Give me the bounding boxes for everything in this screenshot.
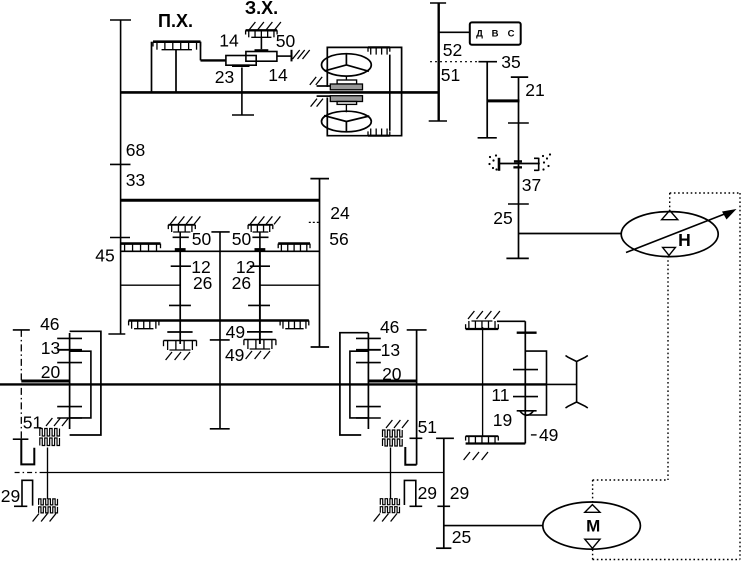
svg-text:25: 25 — [493, 208, 512, 228]
svg-text:49: 49 — [539, 425, 558, 445]
svg-text:46: 46 — [40, 314, 59, 334]
svg-text:50: 50 — [232, 229, 252, 249]
wire shaft to pump — [519, 233, 622, 235]
gear block 14 (sliding box B) — [246, 52, 277, 62]
wire step to sliding block — [200, 42, 202, 61]
gear 49 bottom (frame-fixed) — [466, 435, 499, 437]
svg-text:В: В — [492, 29, 499, 40]
motor port triangle top — [585, 505, 600, 513]
wire shaft to motor — [444, 525, 543, 527]
bearing support 37 — [499, 163, 540, 165]
svg-text:52: 52 — [443, 40, 462, 60]
clutch 51 tooth block middle — [386, 420, 392, 428]
gear 49 top (frame-fixed) — [468, 311, 474, 319]
wire 26 left link — [121, 284, 181, 286]
pump Н (variable displacement) — [621, 212, 718, 257]
housing gear rim bottom — [368, 135, 390, 137]
motor М — [543, 502, 641, 549]
svg-text:Д: Д — [476, 29, 483, 40]
svg-text:26: 26 — [232, 273, 251, 293]
svg-text:29: 29 — [418, 483, 437, 503]
yoke clutch1 — [21, 439, 34, 464]
planet shaft right (12/26) — [259, 251, 261, 344]
turbine hub — [345, 76, 347, 80]
svg-text:46: 46 — [380, 317, 399, 337]
gear mesh comb bottom-left — [129, 320, 159, 322]
planet brake right — [247, 331, 273, 333]
planet shaft left (12/26) — [179, 251, 181, 344]
gear 21 mesh bar — [487, 99, 519, 102]
wire main input shaft — [121, 91, 439, 94]
wire bottom main shaft — [0, 383, 547, 385]
svg-text:33: 33 — [126, 170, 145, 190]
turbine wheel (bottom ellipse) — [322, 111, 372, 132]
svg-text:20: 20 — [382, 364, 402, 384]
svg-text:23: 23 — [215, 67, 234, 87]
hydraulic line right edge down — [739, 193, 741, 560]
shaft V8 — [482, 327, 484, 437]
clutch 1 inner drum — [70, 351, 91, 418]
svg-text:29: 29 — [1, 486, 20, 506]
wire intermediate shaft 45 — [121, 250, 320, 252]
planet brake left — [167, 331, 192, 333]
shaft V9 — [524, 321, 526, 443]
hydraulic line pump top to right — [669, 193, 671, 210]
link pin clutch2 — [390, 448, 392, 499]
torque converter housing — [327, 47, 401, 135]
svg-text:Н: Н — [678, 230, 691, 250]
wire output link — [547, 383, 577, 385]
reactor hub — [330, 96, 362, 102]
wire ring gear bottom rail — [129, 319, 309, 321]
motor port triangle bottom — [585, 539, 600, 548]
svg-text:14: 14 — [219, 31, 239, 51]
svg-text:50: 50 — [192, 229, 212, 249]
svg-text:25: 25 — [452, 527, 471, 547]
gear 25 tick — [508, 203, 529, 205]
svg-text:П.Х.: П.Х. — [158, 11, 193, 31]
gear 45 mesh comb — [121, 242, 161, 245]
shaft V6 (24/56) — [319, 179, 321, 347]
gear 56 mesh comb — [278, 242, 310, 245]
svg-text:19: 19 — [493, 410, 512, 430]
svg-text:24: 24 — [330, 203, 350, 223]
pump port triangle top — [662, 210, 678, 219]
hydraulic line to motor top — [593, 479, 668, 481]
svg-text:35: 35 — [501, 52, 520, 72]
gear 20 bar clutch 1 — [21, 380, 69, 383]
support anchor of reverse idler — [277, 55, 291, 57]
stator support bottom — [317, 95, 331, 97]
svg-text:13: 13 — [381, 340, 400, 360]
shaft V4 (engine shaft) — [438, 3, 440, 121]
mesh line gears 52-51 (dotted) — [430, 61, 479, 63]
gear block 23 (sliding box A) — [226, 56, 256, 66]
shaft V5 — [486, 62, 488, 138]
svg-text:20: 20 — [41, 362, 61, 382]
clutch 1 gear shaft — [69, 333, 71, 429]
svg-text:21: 21 — [525, 80, 544, 100]
wire top link — [497, 320, 525, 322]
gear 19 cup — [517, 411, 537, 416]
clutch 51 tooth block left — [46, 418, 52, 426]
shaft 46 line clutch2 — [416, 330, 418, 465]
bracket 29 middle — [404, 480, 415, 506]
shaft V1 (left vertical shaft) — [120, 20, 122, 334]
axis line clutch 1 — [20, 330, 22, 439]
svg-text:29: 29 — [450, 483, 469, 503]
svg-text:З.Х.: З.Х. — [245, 0, 278, 18]
gear З.Х. (reverse gear, frame-mounted) — [249, 22, 255, 30]
svg-text:13: 13 — [41, 338, 60, 358]
yoke clutch2 — [405, 447, 416, 465]
svg-text:14: 14 — [268, 65, 288, 85]
svg-text:26: 26 — [193, 273, 212, 293]
svg-text:С: С — [508, 29, 515, 40]
svg-text:51: 51 — [418, 417, 437, 437]
label 49 right — [531, 434, 537, 436]
sun gear 50 left (frame-fixed) — [170, 216, 176, 224]
hydraulic line pump bottom down — [667, 256, 669, 480]
universal joint — [566, 356, 588, 409]
clutch 2 drum — [340, 333, 369, 435]
svg-text:51: 51 — [441, 65, 460, 85]
drum bracket right — [525, 351, 546, 415]
svg-text:50: 50 — [276, 31, 296, 51]
svg-text:37: 37 — [522, 175, 541, 195]
engine block ДВС — [470, 22, 521, 44]
svg-text:М: М — [586, 517, 600, 536]
svg-text:56: 56 — [329, 229, 348, 249]
bracket 29 left — [22, 480, 33, 506]
variable displacement arrow — [626, 212, 731, 253]
wire 26 right link — [260, 284, 320, 286]
shaft stub below block 23 — [241, 68, 243, 116]
pump wheel (top ellipse) — [322, 54, 372, 76]
gear П.Х. (forward clutch gear) — [151, 42, 153, 93]
housing gear rim top — [368, 46, 390, 48]
gear 29 block left — [39, 499, 58, 505]
svg-text:11: 11 — [491, 385, 509, 405]
wire to engine box — [439, 31, 470, 33]
svg-text:45: 45 — [95, 246, 114, 266]
hydraulic line bottom to motor — [593, 559, 740, 561]
svg-text:49: 49 — [225, 345, 244, 365]
clutch 2 inner drum — [350, 351, 369, 418]
svg-text:51: 51 — [23, 413, 42, 433]
svg-text:68: 68 — [126, 140, 145, 160]
wire bottom rail right cluster — [466, 442, 526, 444]
shaft V10 — [443, 438, 445, 548]
clutch 2 gear shaft — [367, 333, 369, 429]
gear 20 bar clutch 2 — [368, 380, 416, 383]
shaft V7 (pump drive) — [518, 77, 520, 258]
clutch 1 drum — [70, 331, 101, 435]
gear 29 block middle — [380, 499, 399, 505]
sun gear 50 right (frame-fixed) — [250, 216, 256, 224]
wire carrier top rail 33 — [121, 199, 320, 202]
stator support top — [317, 85, 331, 87]
wire lower countershaft — [15, 472, 44, 474]
pump port triangle bottom — [663, 247, 676, 255]
svg-text:49: 49 — [226, 322, 245, 342]
link pin clutch1 — [47, 448, 49, 500]
center carrier post — [211, 231, 229, 233]
gear mesh comb bottom-right — [280, 320, 309, 322]
